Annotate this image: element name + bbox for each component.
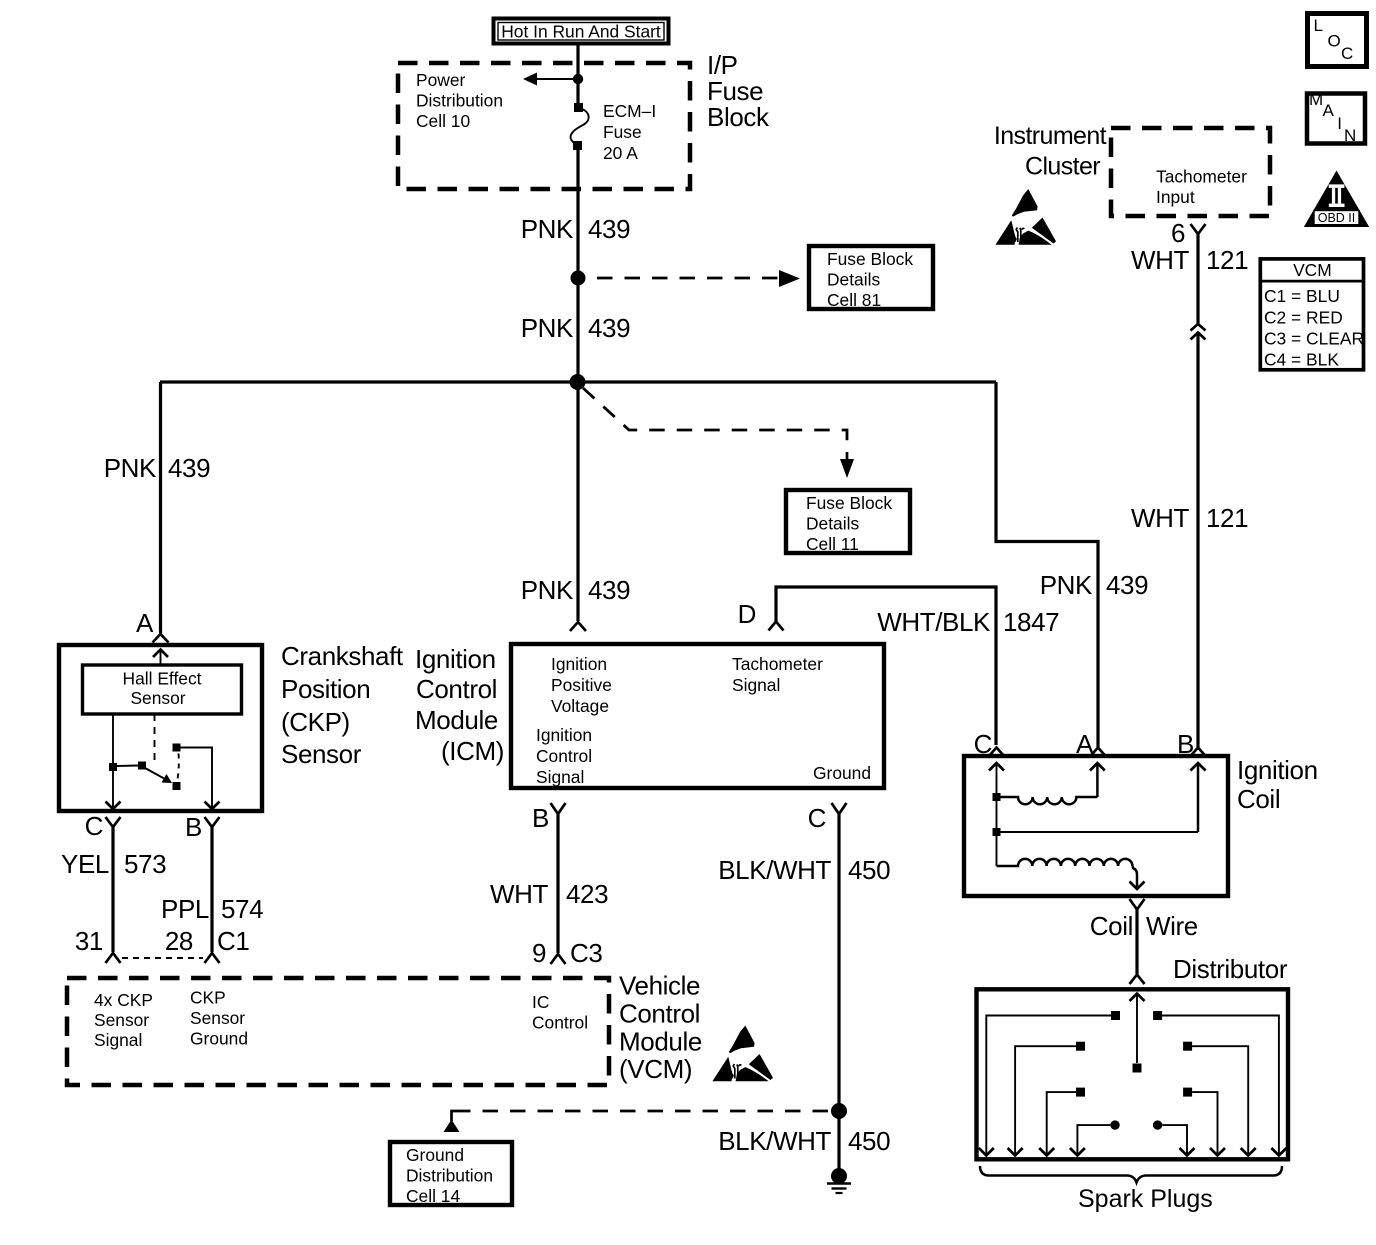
coil internal: contact square on C (primary) xyxy=(993,793,1001,801)
svg-text:Ignition: Ignition xyxy=(536,725,592,745)
svg-text:BLK/WHT: BLK/WHT xyxy=(718,855,831,885)
coil internal: secondary winding xyxy=(997,859,1133,866)
svg-text:Sensor: Sensor xyxy=(130,688,185,708)
CKP internal switch: arm with arrowhead xyxy=(145,768,165,779)
svg-text:Vehicle: Vehicle xyxy=(619,971,700,1001)
svg-text:Control: Control xyxy=(536,746,592,766)
distributor terminal R1 and spark plug wire xyxy=(1153,1011,1162,1020)
svg-text:28: 28 xyxy=(165,926,193,956)
svg-text:A: A xyxy=(1323,101,1335,120)
coil internal: arrow up at A xyxy=(1096,763,1099,797)
svg-text:Ignition: Ignition xyxy=(1237,755,1318,785)
pin: ICM ignition positive voltage connector xyxy=(570,622,586,631)
wire: WHT/BLK 1847 from D to ignition coil C xyxy=(776,587,996,745)
OBD II symbol xyxy=(1304,171,1369,228)
svg-text:Cluster: Cluster xyxy=(1025,153,1100,181)
dashed arrow to Fuse Block Details Cell 81 xyxy=(597,277,785,280)
svg-text:Sensor: Sensor xyxy=(281,739,362,769)
svg-text:C4 = BLK: C4 = BLK xyxy=(1264,350,1339,370)
svg-text:121: 121 xyxy=(1206,503,1248,533)
CKP internal switch: contact square S2 xyxy=(138,762,146,770)
CKP internal switch: wire S1-S2 xyxy=(117,765,138,768)
svg-text:Fuse Block: Fuse Block xyxy=(806,493,892,513)
svg-text:WHT: WHT xyxy=(1131,503,1190,533)
fuse: ECM-I 20 A xyxy=(571,103,589,150)
svg-text:WHT/BLK: WHT/BLK xyxy=(877,607,991,637)
svg-text:Instrument: Instrument xyxy=(994,122,1107,150)
svg-text:439: 439 xyxy=(1106,570,1148,600)
svg-text:C1: C1 xyxy=(217,926,249,956)
distributor internal: rotor contact square xyxy=(1133,1064,1142,1073)
CKP internal dashed control line from hall sensor xyxy=(154,714,156,762)
svg-text:I: I xyxy=(1337,114,1342,133)
svg-text:Cell 10: Cell 10 xyxy=(416,111,470,131)
svg-text:M: M xyxy=(1309,90,1323,109)
distributor terminal L3 and spark plug wire xyxy=(1076,1088,1085,1097)
connector at distributor top xyxy=(1130,975,1145,985)
svg-text:Power: Power xyxy=(416,70,466,90)
CKP internal wire: S3 to pin B xyxy=(180,748,212,810)
svg-text:1847: 1847 xyxy=(1003,607,1059,637)
arrow to Ground Distribution xyxy=(444,1120,460,1133)
svg-text:Position: Position xyxy=(281,674,370,704)
distributor terminal R4 (dot) and spark plug wire xyxy=(1153,1120,1162,1129)
svg-text:PNK: PNK xyxy=(521,313,574,343)
CKP sensor box xyxy=(59,645,262,811)
svg-text:574: 574 xyxy=(221,894,263,924)
svg-text:PNK: PNK xyxy=(1040,570,1093,600)
svg-text:O: O xyxy=(1328,31,1341,50)
svg-text:Ignition: Ignition xyxy=(415,644,496,674)
svg-text:Details: Details xyxy=(827,270,880,290)
svg-text:Ground: Ground xyxy=(406,1145,464,1165)
distributor terminal L2 and spark plug wire xyxy=(1076,1042,1085,1051)
svg-text:OBD II: OBD II xyxy=(1318,211,1356,225)
svg-text:4x CKP: 4x CKP xyxy=(94,990,153,1010)
svg-text:WHT: WHT xyxy=(490,879,549,909)
svg-text:Control: Control xyxy=(619,999,700,1029)
wire: PNK 439 to ignition coil A xyxy=(996,382,1098,747)
svg-text:Ground: Ground xyxy=(813,763,871,783)
ground symbol G103 xyxy=(831,1168,847,1184)
svg-text:439: 439 xyxy=(588,313,630,343)
svg-text:450: 450 xyxy=(848,855,890,885)
svg-text:Signal: Signal xyxy=(536,767,584,787)
svg-text:C1 = BLU: C1 = BLU xyxy=(1264,286,1340,306)
svg-text:PNK: PNK xyxy=(521,214,574,244)
svg-text:439: 439 xyxy=(588,575,630,605)
svg-text:Control: Control xyxy=(416,674,497,704)
svg-text:Ground: Ground xyxy=(190,1029,248,1049)
svg-text:121: 121 xyxy=(1206,245,1248,275)
brace: spark plugs xyxy=(980,1166,1282,1183)
coil wire connector below coil xyxy=(1130,899,1145,910)
svg-text:Sensor: Sensor xyxy=(94,1010,149,1030)
svg-text:9: 9 xyxy=(532,938,546,968)
svg-text:573: 573 xyxy=(124,849,166,879)
svg-text:B: B xyxy=(185,812,202,842)
dashed wire: splice to Ground Distribution xyxy=(459,1110,828,1113)
CKP internal switch: contact square S1 xyxy=(109,763,117,771)
wire: arrow to Power Distribution xyxy=(537,78,578,80)
coil internal: arrow up at C xyxy=(996,763,998,797)
wire BLK/WHT 450 (upper) xyxy=(837,814,840,1176)
svg-text:439: 439 xyxy=(588,214,630,244)
svg-text:VCM: VCM xyxy=(1293,260,1332,280)
svg-text:439: 439 xyxy=(168,453,210,483)
coil internal: contact square on C (to B) xyxy=(993,828,1001,836)
coil internal: wire C down to secondary xyxy=(996,801,998,866)
dashed arrow to Fuse Block Details Cell 11 xyxy=(583,388,847,444)
node: splice S2 (main distribution) xyxy=(570,374,586,390)
svg-text:20 A: 20 A xyxy=(603,143,638,163)
svg-text:C3 = CLEAR: C3 = CLEAR xyxy=(1264,329,1364,349)
svg-text:Module: Module xyxy=(619,1027,702,1057)
svg-text:Signal: Signal xyxy=(94,1030,142,1050)
svg-text:Module: Module xyxy=(415,705,498,735)
svg-text:YEL: YEL xyxy=(61,849,109,879)
wire: distribution bus xyxy=(160,380,996,383)
node: splice on BLK/WHT 450 xyxy=(831,1103,847,1119)
VCM connector legend box xyxy=(1259,259,1365,370)
svg-text:PNK: PNK xyxy=(104,453,157,483)
wire PPL 574 xyxy=(210,827,213,952)
wire WHT 121 (upper) xyxy=(1196,234,1199,324)
ref box: Fuse Block Details Cell 11 xyxy=(786,490,910,554)
in-line connector on WHT 121 xyxy=(1191,324,1206,331)
distributor terminal L4 (dot) and spark plug wire xyxy=(1110,1120,1119,1129)
ESD symbol (VCM) xyxy=(712,1026,773,1082)
svg-text:6: 6 xyxy=(1171,218,1185,248)
svg-text:CKP: CKP xyxy=(190,988,226,1008)
svg-text:Sensor: Sensor xyxy=(190,1008,245,1028)
svg-text:Hot In Run And Start: Hot In Run And Start xyxy=(501,22,661,42)
distributor terminal R2 and spark plug wire xyxy=(1183,1042,1192,1051)
wire: S1 to S2 xyxy=(576,278,579,382)
svg-text:Signal: Signal xyxy=(732,675,780,695)
wire: PNK 439 to ICM xyxy=(576,382,579,621)
svg-text:Cell 11: Cell 11 xyxy=(806,534,859,554)
svg-text:A: A xyxy=(136,608,154,638)
CKP internal switch: contact square S3 xyxy=(173,744,181,752)
svg-text:IC: IC xyxy=(532,992,549,1012)
svg-text:Distributor: Distributor xyxy=(1173,954,1288,984)
wire: fuse to splice S1 (PNK 439) xyxy=(576,150,579,278)
CKP internal arrow up to pin A xyxy=(160,650,162,664)
svg-text:C: C xyxy=(1341,44,1353,63)
svg-text:Ignition: Ignition xyxy=(551,654,607,674)
svg-text:Tachometer: Tachometer xyxy=(732,654,823,674)
svg-text:L: L xyxy=(1314,16,1323,35)
svg-text:450: 450 xyxy=(848,1126,890,1156)
svg-text:Details: Details xyxy=(806,514,859,534)
CKP internal switch: contact square S4 xyxy=(173,782,181,790)
svg-text:BLK/WHT: BLK/WHT xyxy=(718,1126,831,1156)
wire WHT 121 (lower) to ignition coil B xyxy=(1196,333,1199,748)
coil internal: wire square to B xyxy=(1000,831,1198,833)
svg-text:WHT: WHT xyxy=(1131,245,1190,275)
coil internal: primary winding xyxy=(1000,797,1097,804)
wire: PNK 439 to CKP sensor xyxy=(159,382,162,633)
VCM dashed box xyxy=(67,978,609,1085)
svg-text:N: N xyxy=(1344,126,1356,145)
svg-text:D: D xyxy=(738,599,756,629)
svg-text:Hall Effect: Hall Effect xyxy=(123,669,202,689)
svg-text:Fuse Block: Fuse Block xyxy=(827,249,913,269)
wire: title box to fuse block xyxy=(576,45,579,64)
wire YEL 573 xyxy=(111,827,114,952)
node: splice S1 xyxy=(571,271,586,286)
svg-text:Coil: Coil xyxy=(1237,784,1280,814)
svg-text:31: 31 xyxy=(75,926,103,956)
svg-text:Fuse: Fuse xyxy=(603,122,642,142)
distributor terminal L1 and spark plug wire xyxy=(1111,1011,1120,1020)
ref box: Ground Distribution Cell 14 xyxy=(390,1142,512,1206)
svg-text:423: 423 xyxy=(566,879,608,909)
connector line C1 (dashed) xyxy=(122,957,203,959)
svg-text:ECM–I: ECM–I xyxy=(603,101,656,121)
svg-text:PPL: PPL xyxy=(161,894,209,924)
title box: Hot In Run And Start xyxy=(494,19,669,44)
MAIN symbol box xyxy=(1307,90,1365,145)
svg-text:Cell 81: Cell 81 xyxy=(827,290,881,310)
svg-text:C2 = RED: C2 = RED xyxy=(1264,308,1343,328)
distributor internal: rotor arrow up xyxy=(1136,994,1138,1064)
Hall Effect Sensor box xyxy=(83,665,242,714)
svg-text:Distribution: Distribution xyxy=(406,1166,493,1186)
wire: coil wire xyxy=(1135,910,1138,975)
distributor terminal R3 and spark plug wire xyxy=(1183,1088,1192,1097)
svg-text:Input: Input xyxy=(1156,187,1195,207)
svg-text:Voltage: Voltage xyxy=(551,696,609,716)
ESD symbol (instrument cluster) xyxy=(995,189,1056,245)
svg-text:Crankshaft: Crankshaft xyxy=(281,641,404,671)
svg-text:B: B xyxy=(532,803,549,833)
ref box: Fuse Block Details Cell 81 xyxy=(809,246,933,310)
Tachometer Input dashed box xyxy=(1111,128,1270,216)
ICM box xyxy=(511,644,884,788)
svg-text:(VCM): (VCM) xyxy=(619,1054,692,1084)
svg-text:(CKP): (CKP) xyxy=(281,707,350,737)
svg-text:PNK: PNK xyxy=(521,575,574,605)
svg-text:C: C xyxy=(808,803,826,833)
I/P Fuse Block dashed box xyxy=(398,63,690,189)
distributor box xyxy=(977,989,1289,1159)
svg-text:Coil: Coil xyxy=(1090,911,1133,941)
wire WHT 423 xyxy=(556,814,559,953)
svg-text:(ICM): (ICM) xyxy=(441,736,504,766)
coil internal: arrow up at B xyxy=(1197,763,1200,832)
coil internal: secondary output arrow down xyxy=(1132,866,1137,889)
svg-text:Distribution: Distribution xyxy=(416,91,503,111)
svg-text:Positive: Positive xyxy=(551,675,612,695)
svg-text:Spark Plugs: Spark Plugs xyxy=(1078,1185,1213,1213)
LOC symbol box xyxy=(1308,14,1367,67)
svg-text:Block: Block xyxy=(707,102,770,132)
svg-text:Cell 14: Cell 14 xyxy=(406,1186,460,1206)
CKP internal wire: hall to pin C xyxy=(112,714,114,809)
svg-text:Wire: Wire xyxy=(1146,911,1198,941)
svg-text:C3: C3 xyxy=(570,938,602,968)
svg-text:Tachometer: Tachometer xyxy=(1156,167,1247,187)
svg-text:C: C xyxy=(85,811,103,841)
node: splice in fuse block xyxy=(573,74,583,84)
svg-text:Control: Control xyxy=(532,1013,588,1033)
ignition coil box xyxy=(964,756,1228,896)
